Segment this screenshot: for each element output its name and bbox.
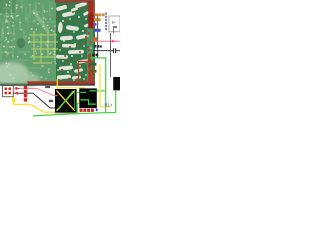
label black mid bbox=[94, 45, 102, 48]
label column red vertical bbox=[24, 86, 27, 102]
pcb solder pads bbox=[0, 1, 56, 79]
label red vertical small bbox=[89, 74, 92, 80]
connector CN2 board-end box bbox=[79, 88, 97, 108]
label green wire name bbox=[90, 63, 96, 66]
label vertical gray column bbox=[105, 13, 107, 31]
pcb components bbox=[56, 1, 91, 79]
wire green link bbox=[77, 91, 80, 93]
pcb red marks bbox=[85, 23, 92, 80]
pcb light streak bbox=[31, 9, 49, 33]
label pin 3.3 bbox=[45, 86, 53, 102]
wire green under CN2 bbox=[77, 104, 79, 115]
wire black return bbox=[13, 92, 55, 108]
pcb bottom red strip bbox=[27, 81, 95, 85]
wire yellow top bbox=[57, 79, 86, 90]
label yellow wire name bbox=[90, 70, 96, 73]
annotation box left bbox=[3, 85, 14, 96]
wire pink feed bbox=[13, 87, 56, 96]
label red under CN2 bbox=[80, 109, 98, 112]
capacitor C1 line bbox=[93, 48, 120, 53]
pcb traces left bbox=[1, 0, 56, 72]
red highlight frame on photo bbox=[79, 62, 93, 84]
label orange top bbox=[94, 13, 104, 21]
label blue meter bbox=[94, 23, 100, 31]
svg-text:B+: B+ bbox=[112, 21, 117, 25]
pcb traces grid bbox=[28, 30, 58, 63]
flyback box FB bbox=[113, 77, 120, 90]
pcb photo board bbox=[0, 0, 95, 87]
pcb right edge red strip bbox=[88, 54, 91, 83]
svg-text:B1+: B1+ bbox=[105, 103, 113, 108]
pcb specks right bbox=[57, 16, 92, 81]
wire black vertical mid bbox=[97, 14, 99, 58]
wire black vertical right bbox=[110, 33, 112, 77]
label black wire name bbox=[92, 54, 98, 57]
pcb solder joints bbox=[56, 4, 91, 80]
wire yellow bottom bbox=[12, 97, 80, 113]
B+ source box bbox=[109, 16, 120, 33]
wire green long loop bbox=[33, 58, 116, 116]
label orange mid bbox=[93, 37, 97, 41]
pcb top edge strip bbox=[55, 0, 91, 3]
pcb bottom dark edge bbox=[0, 84, 95, 86]
pcb red edge bar bbox=[88, 1, 94, 29]
connector CN1 crossover box bbox=[55, 89, 77, 114]
wire yellow right bbox=[100, 64, 112, 106]
wire red measure line bbox=[93, 40, 120, 43]
pcb dark component shadow bbox=[17, 38, 25, 48]
